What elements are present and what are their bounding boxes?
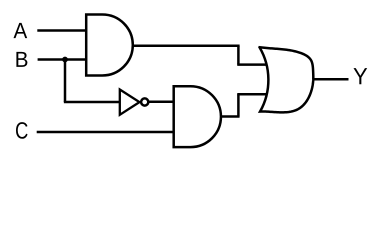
wire C input xyxy=(37,131,175,134)
wire Y output xyxy=(312,78,349,81)
wire AND1 output horizontal xyxy=(132,45,240,48)
wire OR top input horizontal xyxy=(237,63,270,66)
wire AND1 output jog vertical down xyxy=(237,46,240,65)
label B xyxy=(16,52,27,67)
wire branch B horizontal to inverter xyxy=(64,101,121,104)
wire branch B vertical to inverter xyxy=(64,60,67,103)
NOT gate bubble xyxy=(141,98,148,105)
wire A input xyxy=(37,29,87,32)
wire AND2 output horizontal xyxy=(221,115,240,118)
AND gate 2 (inputs NOT-B, C) xyxy=(174,86,221,147)
AND gate 1 (inputs A, B) xyxy=(86,15,133,76)
wire B input xyxy=(38,58,87,61)
NOT gate inverter triangle xyxy=(120,90,140,115)
label A xyxy=(14,23,28,38)
wire inverter output to AND2 xyxy=(149,101,175,104)
label C xyxy=(16,122,28,139)
wire AND2 output jog vertical up xyxy=(237,94,240,116)
node junction dot on B xyxy=(62,57,68,63)
wire OR bottom input horizontal xyxy=(237,93,270,96)
label Y xyxy=(354,68,368,84)
OR gate xyxy=(260,47,314,112)
